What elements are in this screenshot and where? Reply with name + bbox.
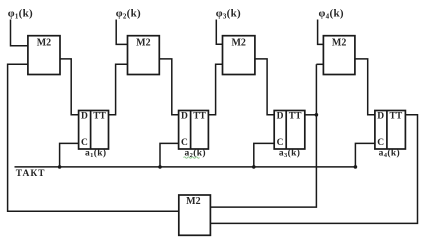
wire φ3(k) to M2 U3 upper input — [216, 20, 222, 45]
D flip-flop TT2 — [179, 111, 209, 150]
svg-text:ТАКТ: ТАКТ — [16, 169, 46, 179]
svg-text:φ3(k): φ3(k) — [216, 7, 241, 20]
svg-text:C: C — [81, 138, 88, 148]
mod-2 adder U5 feedback — [179, 195, 211, 235]
wire φ1(k) to M2 U1 upper input — [11, 20, 28, 46]
divider of TT2 — [190, 111, 192, 150]
svg-text:a3(k): a3(k) — [279, 147, 300, 159]
wire U3 output to D input of TT3 — [255, 59, 274, 115]
svg-text:M2: M2 — [231, 38, 245, 49]
wire U1 output to D input of TT1 — [60, 59, 79, 115]
mod-2 adder U2 — [128, 36, 160, 75]
svg-text:M2: M2 — [332, 38, 346, 49]
wire clock to C input of TT3 — [254, 143, 274, 167]
wire TT3 output to U4 lower input — [316, 63, 323, 65]
svg-text:φ4(k): φ4(k) — [319, 7, 344, 20]
D flip-flop TT1 — [79, 111, 109, 150]
svg-text:D: D — [277, 112, 284, 122]
svg-text:TT: TT — [390, 112, 403, 122]
svg-text:C: C — [277, 138, 284, 148]
svg-text:a4(k): a4(k) — [379, 147, 400, 159]
mod-2 adder U3 — [223, 36, 255, 75]
wire TT4 output to bottom adder U5 input — [210, 115, 417, 224]
wire U2 output to D input of TT2 — [159, 59, 178, 115]
node ТАКТ clock bus — [15, 166, 356, 168]
D flip-flop TT3 — [274, 111, 305, 150]
svg-text:M2: M2 — [37, 38, 51, 49]
mod-2 adder U4 — [323, 36, 355, 75]
wire TT3 output down to bottom adder U5 input — [210, 64, 316, 207]
svg-text:a1(k): a1(k) — [85, 147, 106, 159]
junction dot on ТАКТ line for TT1 — [58, 165, 62, 169]
wire φ2(k) to M2 U2 upper input — [116, 20, 127, 45]
wire feedback from bottom adder U5 output to U1 lower input — [8, 64, 179, 211]
junction dot on ТАКТ line for TT4 — [354, 165, 358, 169]
svg-text:TT: TT — [93, 112, 106, 122]
wire clock to C input of TT2 — [160, 143, 179, 167]
wire TT2 output to U3 lower input — [208, 64, 222, 115]
wire φ4(k) to M2 U4 upper input — [318, 20, 324, 45]
svg-text:TT: TT — [193, 112, 206, 122]
D flip-flop TT4 — [375, 111, 406, 150]
svg-text:C: C — [181, 138, 188, 148]
svg-text:M2: M2 — [186, 196, 200, 207]
wire TT1 output to U2 lower input — [109, 64, 128, 115]
svg-text:M2: M2 — [136, 38, 150, 49]
svg-text:φ1(k): φ1(k) — [8, 7, 33, 20]
green squiggle under a2(k) — [184, 157, 200, 158]
junction dot on ТАКТ line for TT3 — [252, 165, 256, 169]
svg-text:C: C — [377, 138, 384, 148]
mod-2 adder U1 — [28, 36, 60, 75]
junction dot TT3 output — [315, 113, 319, 117]
divider of TT4 — [386, 111, 388, 150]
svg-text:D: D — [377, 112, 384, 122]
divider of TT3 — [285, 111, 287, 150]
svg-text:D: D — [181, 112, 188, 122]
divider of TT1 — [90, 111, 92, 150]
junction dot on ТАКТ line for TT2 — [158, 165, 162, 169]
wire U4 output to D input of TT4 — [355, 59, 375, 115]
wire clock to C input of TT1 — [60, 143, 79, 167]
wire TT3 output junction node — [305, 114, 317, 116]
svg-text:φ2(k): φ2(k) — [116, 7, 141, 20]
svg-text:D: D — [81, 112, 88, 122]
wire clock to C input of TT4 — [355, 143, 375, 167]
svg-text:TT: TT — [289, 112, 302, 122]
